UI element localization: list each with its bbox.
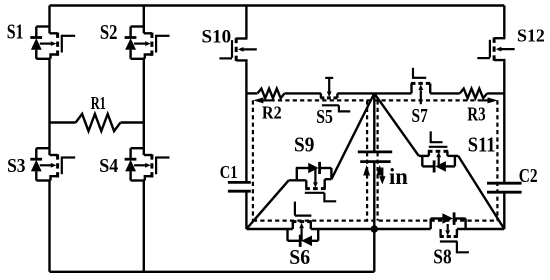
wire diagonal upper-left — [331, 93, 374, 179]
transistor S8 — [431, 212, 469, 252]
dashed loop arrow right — [488, 97, 498, 103]
svg-text:R1: R1 — [91, 94, 106, 114]
capacitor C2 — [487, 183, 522, 192]
transistor S3 — [30, 148, 75, 180]
wire S10 source down to mid wire — [245, 63, 247, 94]
dashed loop bottom line — [253, 220, 498, 222]
svg-text:S7: S7 — [412, 104, 428, 127]
transistor S7 — [411, 68, 430, 104]
wire second rail upper (S2 drain) — [143, 6, 145, 27]
resistor R3 — [460, 89, 487, 99]
current arrow in — [379, 168, 385, 185]
dashed loop arrow right shaft — [482, 99, 488, 101]
svg-text:S4: S4 — [99, 155, 118, 177]
dashed loop mid-right vertical — [377, 100, 379, 220]
svg-text:S6: S6 — [289, 246, 310, 269]
transistor S11 — [419, 131, 458, 172]
wire C2 top lead — [503, 93, 505, 183]
wire module bottom right segment — [457, 228, 504, 230]
resistor R2 — [258, 89, 285, 99]
transistor S10 — [219, 38, 256, 63]
wire C1 top lead — [245, 93, 247, 182]
wire S12 drain from top bus — [503, 6, 505, 39]
wire diagonal lower-left — [246, 180, 288, 229]
wire diagonal upper-right — [374, 93, 419, 155]
dashed loop top line — [263, 99, 271, 101]
wire diagonal lower-right — [458, 156, 504, 229]
svg-text:S5: S5 — [316, 105, 333, 127]
wire C2 bottom lead — [503, 192, 505, 229]
wire C1 bottom lead — [245, 191, 247, 229]
wire module bottom left segment — [246, 228, 292, 230]
transistor S6 — [288, 202, 319, 247]
dashed loop top line — [271, 99, 483, 101]
wire R3 to right rail — [487, 92, 504, 94]
capacitor Cin top plate — [358, 150, 392, 153]
transistor S5 — [320, 78, 350, 112]
wire left rail middle — [48, 59, 50, 148]
svg-text:in: in — [389, 164, 408, 189]
svg-text:S1: S1 — [7, 21, 24, 45]
wire S10 drain from top bus — [245, 6, 247, 39]
transistor S1 — [30, 27, 75, 59]
wire left rail lower — [48, 181, 50, 272]
dashed loop arrow up-right — [376, 165, 383, 176]
wire S5 to apex node — [337, 92, 374, 94]
wire second rail middle — [143, 59, 145, 148]
svg-text:R2: R2 — [262, 103, 282, 123]
svg-text:S2: S2 — [100, 21, 118, 44]
dashed loop arrow up-left — [363, 165, 370, 176]
svg-text:S9: S9 — [294, 134, 314, 157]
wire module bottom mid segment — [311, 228, 431, 230]
resistor R1 — [50, 114, 144, 131]
transistor S9 — [289, 162, 337, 201]
svg-text:C1: C1 — [220, 162, 238, 183]
dashed loop right vertical — [496, 100, 498, 220]
wire S12 source down to mid wire — [503, 63, 505, 94]
wire apex down to input capacitor — [373, 93, 375, 151]
transistor S4 — [125, 148, 170, 180]
wire R2 to S5 — [285, 92, 321, 94]
svg-text:C2: C2 — [519, 164, 538, 186]
dashed loop mid-left vertical — [366, 100, 368, 220]
capacitor C1 — [228, 182, 251, 191]
wire bottom bus — [50, 271, 375, 273]
wire capacitor to bottom bus — [373, 162, 375, 272]
svg-text:S3: S3 — [7, 155, 25, 177]
wire apex to S7 — [374, 92, 411, 94]
wire S7 to R3 — [430, 92, 460, 94]
wire top bus — [50, 4, 505, 6]
wire second rail lower — [143, 181, 145, 272]
svg-text:R3: R3 — [467, 102, 485, 125]
transistor S2 — [125, 27, 170, 59]
transistor S12 — [477, 38, 514, 63]
svg-text:S8: S8 — [433, 246, 452, 269]
wire left rail upper (S1 drain) — [48, 6, 50, 27]
svg-text:S12: S12 — [517, 25, 545, 45]
dashed loop arrow left — [253, 97, 263, 103]
wire mid left segment — [246, 92, 257, 94]
dashed loop left vertical — [252, 100, 254, 220]
capacitor Cin bottom plate — [360, 160, 390, 163]
svg-text:S11: S11 — [468, 133, 496, 156]
node junction dot — [371, 225, 378, 232]
svg-text:S10: S10 — [202, 27, 232, 48]
